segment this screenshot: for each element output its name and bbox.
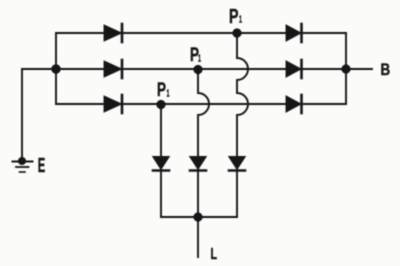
diode D1 (top left) bbox=[105, 24, 123, 42]
wire: right vertical bus bbox=[345, 33, 347, 104]
svg-text:1: 1 bbox=[167, 89, 170, 100]
node P3 junction dot bbox=[232, 28, 241, 37]
svg-text:B: B bbox=[381, 60, 391, 79]
svg-text:P: P bbox=[229, 6, 239, 28]
diode D5 (middle right) bbox=[287, 60, 302, 78]
wire: dropper from node P1 bbox=[160, 104, 162, 217]
diode D2 (middle left) bbox=[105, 60, 123, 78]
svg-text:1: 1 bbox=[198, 54, 201, 65]
node at bottom bus / L junction bbox=[193, 212, 202, 221]
diode D3 (bottom left) bbox=[105, 95, 123, 113]
node at right bus / B lead junction bbox=[341, 64, 350, 73]
diode D6 (bottom right) bbox=[287, 95, 302, 113]
wire: middle phase line bbox=[56, 68, 346, 70]
node P2 junction dot bbox=[193, 65, 202, 74]
svg-text:1: 1 bbox=[239, 15, 242, 26]
wire: lead from right bus node to terminal B bbox=[347, 68, 372, 70]
wire: drop from bottom junction to terminal L bbox=[197, 217, 199, 257]
diode D9 (field diode, right, points down) bbox=[229, 157, 245, 171]
wire: dropper from node P3 with hops over middle and bottom lines bbox=[237, 33, 248, 217]
svg-text:P: P bbox=[157, 79, 166, 101]
diode D4 (top right) bbox=[287, 24, 302, 42]
wire: bottom bus joining field diodes bbox=[161, 216, 237, 218]
diode D8 (field diode, centre, points down) bbox=[190, 157, 206, 171]
wire: lead from E node to left bus bbox=[22, 68, 56, 70]
svg-text:L: L bbox=[211, 246, 218, 263]
wire: dropper from node P2 with hop over bottom line bbox=[198, 69, 209, 217]
node P1 junction dot bbox=[156, 100, 165, 109]
diode D7 (field diode, left, points down) bbox=[153, 157, 169, 171]
wire: bottom phase line bbox=[56, 103, 346, 105]
wire: left vertical bus bbox=[55, 33, 57, 104]
ground symbol (earth E) bbox=[13, 162, 33, 173]
wire: top phase line bbox=[56, 32, 346, 34]
svg-text:E: E bbox=[38, 154, 46, 177]
node at earth point bbox=[18, 157, 26, 165]
wire: drop from lead to earth point E bbox=[21, 69, 23, 161]
node at left bus / E lead junction bbox=[51, 64, 60, 73]
